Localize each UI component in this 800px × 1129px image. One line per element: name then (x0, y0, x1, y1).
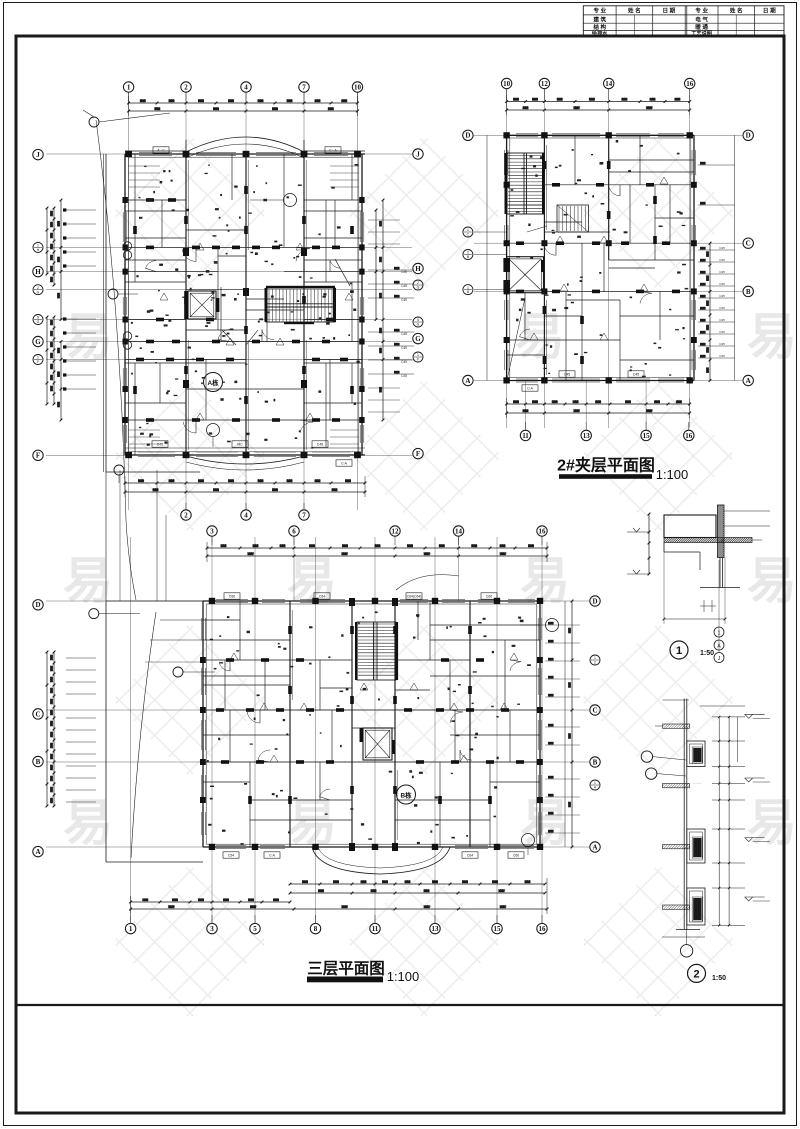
plan3 wall columns (200, 598, 543, 851)
plan3 right axis bubbles (590, 596, 600, 852)
svg-text:C: C (592, 706, 597, 714)
plan1 elevator side wall fills (184, 291, 219, 319)
svg-text:2#夹层平面图: 2#夹层平面图 (557, 456, 655, 475)
svg-text:C45: C45 (719, 318, 725, 322)
plan1 bottom dimension chains (124, 476, 367, 497)
svg-text:B: B (36, 758, 41, 766)
svg-text:4: 4 (244, 511, 248, 519)
plan1 A-unit label circle (204, 373, 223, 392)
svg-text:10: 10 (354, 83, 362, 91)
plan3 window openings (216, 593, 535, 858)
detail2 left level circles (641, 751, 686, 779)
svg-text:B: B (746, 288, 751, 296)
svg-text:D: D (35, 601, 40, 609)
svg-text:H: H (415, 265, 421, 273)
plan1 left dimension chain (46, 199, 96, 422)
svg-text:易: 易 (63, 309, 113, 365)
svg-text:C45: C45 (401, 270, 407, 274)
svg-text:1: 1 (594, 781, 596, 785)
svg-text:C - A: C - A (329, 149, 337, 153)
plan1 interior partitions (125, 154, 362, 455)
svg-text:C45: C45 (719, 354, 725, 358)
plan3 elevator side wall fills (360, 728, 396, 754)
plan2 interior partitions (507, 135, 694, 380)
plan2 left outside lines (474, 135, 506, 380)
plan3 site boundary curve (96, 120, 136, 600)
svg-text:16: 16 (685, 432, 693, 440)
detail1 left dimension line (627, 513, 650, 576)
plan2 axis grid lines (474, 89, 742, 428)
plan1 room leader circle upper (250, 194, 297, 207)
svg-text:1: 1 (467, 286, 469, 290)
svg-text:11: 11 (522, 432, 529, 440)
svg-text:C64: C64 (319, 595, 325, 599)
detail1 axis circles column (714, 560, 724, 663)
svg-text:1: 1 (467, 228, 469, 232)
svg-text:1: 1 (127, 83, 131, 91)
svg-text:易: 易 (747, 309, 797, 365)
plan1 top axis bubbles 1 2 4 7 10 (123, 82, 362, 103)
svg-text:1: 1 (417, 353, 419, 357)
detail2 bottom assembly (662, 930, 705, 958)
svg-text:三层平面图: 三层平面图 (307, 960, 385, 978)
svg-text:C45: C45 (401, 284, 407, 288)
svg-text:12: 12 (541, 80, 549, 88)
svg-text:5: 5 (253, 925, 257, 933)
svg-text:C54: C54 (228, 854, 234, 858)
plan3 interior partitions (203, 601, 540, 847)
svg-text:D: D (746, 132, 751, 140)
svg-text:H: H (35, 268, 41, 276)
plan3 elevator shaft (363, 728, 392, 760)
svg-text:13: 13 (432, 925, 440, 933)
plan2 wall columns (503, 132, 696, 383)
plan3 terrace top lines (145, 620, 203, 662)
plan1 window openings top wall (139, 152, 348, 155)
plan1 wall jamb bars (133, 186, 354, 422)
svg-text:A: A (465, 377, 470, 385)
svg-text:6: 6 (292, 527, 296, 535)
svg-text:5: 5 (37, 316, 39, 320)
svg-text:14: 14 (455, 527, 463, 535)
svg-text:C45: C45 (719, 270, 725, 274)
svg-text:C-A: C-A (269, 854, 276, 858)
svg-text:G: G (415, 335, 421, 343)
svg-text:易: 易 (63, 795, 113, 851)
plan3 unit separation walls (290, 601, 470, 847)
plan1 window label boxes top (153, 147, 341, 153)
plan3 interior annotation scatter (207, 611, 531, 844)
svg-text:1: 1 (129, 925, 133, 933)
plan2 right axis bubbles (743, 130, 753, 386)
watermark layer (63, 135, 797, 1020)
detail1 hatched wall (718, 505, 725, 558)
svg-text:2: 2 (37, 286, 39, 290)
svg-text:C45: C45 (317, 443, 323, 447)
svg-text:7: 7 (302, 511, 306, 519)
plan1 staircase (265, 286, 337, 324)
svg-text:B: B (593, 758, 598, 766)
svg-text:8: 8 (314, 925, 318, 933)
svg-text:易: 易 (747, 795, 797, 851)
svg-text:5: 5 (417, 318, 419, 322)
svg-text:1:50: 1:50 (712, 975, 726, 982)
svg-text:易: 易 (520, 795, 570, 851)
detail2 right dimension lines (712, 716, 745, 927)
plan1 top dimension chains (127, 96, 359, 116)
svg-text:16: 16 (539, 925, 547, 933)
plan3 door swing arcs (219, 660, 521, 800)
plan1-plan3 connector lines (106, 470, 166, 601)
svg-text:1: 1 (594, 656, 596, 660)
svg-text:C45: C45 (719, 294, 725, 298)
svg-text:A: A (592, 843, 597, 851)
plan3 bottom axis bubbles (125, 915, 547, 934)
svg-text:给排水: 给排水 (592, 29, 608, 37)
plan3 wall jamb bars (216, 626, 524, 804)
svg-text:1: 1 (37, 356, 39, 360)
plan1 wall columns (123, 151, 365, 458)
plan3 door symbols (230, 653, 518, 762)
svg-text:C45: C45 (401, 332, 407, 336)
detail1 beam rectangle (664, 515, 716, 538)
svg-text:C64: C64 (467, 854, 473, 858)
svg-text:11: 11 (372, 925, 379, 933)
svg-text:F: F (416, 450, 420, 458)
plan2 window openings (516, 134, 684, 391)
plan3 axis grid lines (46, 537, 589, 923)
detail2 main wall lines (684, 699, 687, 930)
plan3 bottom dimension chains (129, 878, 548, 914)
plan2 right outside dimension (698, 135, 735, 382)
svg-text:易: 易 (287, 795, 337, 851)
svg-text:G: G (417, 286, 420, 290)
plan2 top dimension chains (505, 95, 691, 115)
svg-text:C64(C64): C64(C64) (407, 595, 422, 599)
svg-text:F: F (37, 360, 39, 364)
svg-text:C-A: C-A (341, 462, 348, 466)
svg-text:C45: C45 (401, 298, 407, 302)
plan3 room leader circle lower (522, 834, 535, 856)
svg-text:C45: C45 (633, 373, 639, 377)
plan3 inner wall parallels (202, 605, 542, 845)
svg-text:J: J (416, 150, 420, 158)
plan2 door swing arcs (520, 185, 652, 340)
svg-text:4: 4 (244, 83, 248, 91)
svg-text:G: G (37, 320, 40, 324)
detail2 slab hatches (655, 724, 689, 909)
svg-text:日 期: 日 期 (763, 7, 776, 15)
detail1 leader lines to right (724, 511, 770, 526)
plan2 left axis bubbles (463, 130, 473, 386)
plan3 staircase (355, 575, 459, 680)
svg-text:16: 16 (686, 80, 694, 88)
svg-text:G: G (37, 290, 40, 294)
plan1 unit separation walls (186, 154, 306, 455)
svg-text:结 构: 结 构 (593, 23, 606, 31)
svg-text:D: D (592, 597, 597, 605)
svg-text:1:100: 1:100 (387, 969, 420, 984)
svg-text:J: J (36, 151, 40, 159)
svg-text:G: G (35, 338, 41, 346)
svg-text:10: 10 (503, 80, 511, 88)
plan1 door symbols (160, 243, 353, 420)
svg-text:C60: C60 (486, 595, 492, 599)
svg-text:暖 通: 暖 通 (695, 23, 708, 31)
plan3 top dimension chains (206, 542, 549, 562)
plan1 left axis bubbles (33, 149, 43, 460)
svg-text:1:50: 1:50 (700, 650, 714, 657)
plan1 interior annotation scatter (131, 164, 360, 449)
svg-text:建 筑: 建 筑 (592, 15, 606, 23)
detail2 name circle 1:50 (688, 964, 727, 982)
plan2 wall jamb bars (516, 161, 680, 364)
plan2 elevator shaft (507, 257, 544, 293)
plan1 elevator shaft (188, 291, 216, 319)
svg-text:15: 15 (643, 432, 651, 440)
svg-text:7: 7 (302, 83, 306, 91)
svg-text:F: F (417, 358, 419, 362)
plan3 outer walls (203, 601, 540, 847)
svg-text:C60: C60 (513, 854, 519, 858)
plan1 top-left leader circle (83, 110, 170, 127)
plan2 diagonal leader (507, 226, 547, 380)
svg-text:D: D (465, 132, 470, 140)
detail2 window boxes (687, 741, 705, 925)
svg-text:F: F (36, 452, 40, 460)
plan2 door symbols (530, 177, 668, 340)
plan3 inner leader circle left (89, 609, 215, 677)
detail2 top lines (663, 700, 746, 706)
svg-text:G: G (417, 323, 420, 327)
svg-text:2: 2 (184, 511, 188, 519)
svg-text:1: 1 (676, 645, 682, 657)
detail1 bottom dimension (663, 543, 727, 625)
svg-text:C45: C45 (401, 360, 407, 364)
plan1 door swing arcs (146, 247, 341, 433)
svg-text:2: 2 (467, 251, 469, 255)
svg-text:易: 易 (63, 553, 113, 609)
svg-text:C45: C45 (719, 330, 725, 334)
plan1 axis grid lines (46, 92, 412, 510)
svg-text:工艺说明: 工艺说明 (691, 29, 712, 37)
svg-text:日 期: 日 期 (663, 7, 676, 15)
svg-text:易: 易 (747, 553, 797, 609)
svg-text:C: C (746, 240, 751, 248)
plan3 B-unit label circle (397, 785, 416, 804)
svg-text:12: 12 (392, 527, 400, 535)
svg-text:C45: C45 (401, 346, 407, 350)
plan1 inner fraction circles (123, 242, 131, 349)
plan2 interior annotation scatter (510, 140, 688, 377)
svg-text:C45: C45 (719, 282, 725, 286)
plan1 bottom bay band (186, 456, 304, 470)
plan2 inner wall parallels (504, 139, 695, 378)
svg-text:1: 1 (37, 244, 39, 248)
plan1 side room shelf lines (129, 166, 359, 444)
plan2 top axis bubbles (501, 78, 695, 100)
plan1 corridor door leaves (222, 259, 350, 345)
svg-text:2: 2 (417, 281, 419, 285)
svg-text:14: 14 (605, 80, 613, 88)
svg-text:A - C: A - C (157, 149, 165, 153)
svg-text:1:100: 1:100 (656, 467, 689, 482)
plan1 inner wall parallels (123, 157, 364, 452)
plan1 terrace leader circle (108, 289, 138, 299)
plan3 room leader circle upper (520, 619, 559, 632)
plan2 title text (557, 456, 688, 483)
plan3 top axis bubbles (207, 526, 547, 545)
svg-text:C: C (35, 710, 40, 718)
svg-text:13: 13 (583, 432, 591, 440)
svg-text:C45: C45 (719, 306, 725, 310)
svg-text:专 业: 专 业 (695, 7, 708, 15)
plan3 left dimension chain (46, 651, 96, 808)
plan1 room leader circle lower (207, 424, 220, 448)
svg-text:C66: C66 (229, 595, 235, 599)
plan2 unit separation walls (544, 135, 608, 380)
svg-text:专 业: 专 业 (593, 7, 606, 15)
svg-text:电 气: 电 气 (695, 15, 708, 23)
svg-text:A: A (746, 377, 751, 385)
detail1 slab hatch strip (664, 538, 762, 543)
svg-text:B栋: B栋 (400, 791, 412, 800)
plan3 right outside lines (545, 600, 580, 849)
svg-text:C45: C45 (564, 373, 570, 377)
svg-text:3: 3 (210, 925, 214, 933)
plan1 window openings bottom wall (138, 441, 352, 466)
plan2 bottom dimension chains (505, 398, 691, 418)
svg-text:姓 名: 姓 名 (729, 7, 743, 15)
svg-text:C45: C45 (719, 246, 725, 250)
plan3 bottom bay window (312, 847, 450, 874)
plan3 left terrace outline (106, 601, 203, 862)
svg-text:A栋: A栋 (207, 378, 219, 387)
svg-text:姓 名: 姓 名 (627, 7, 641, 15)
plan2 outer walls (507, 135, 694, 380)
svg-text:C45: C45 (719, 342, 725, 346)
plan3 title text (307, 960, 419, 985)
svg-text:MC: MC (237, 443, 243, 447)
plan2 staircase lower flight (557, 205, 589, 232)
svg-text:C45: C45 (157, 443, 163, 447)
bottom divider line (16, 1004, 784, 1006)
detail1 name circle 1:50 (670, 641, 714, 659)
svg-text:C45: C45 (401, 374, 407, 378)
svg-text:2: 2 (693, 968, 699, 980)
svg-text:C45: C45 (719, 258, 725, 262)
svg-text:15: 15 (494, 925, 502, 933)
plan2 bottom axis bubbles (520, 422, 694, 441)
svg-text:2: 2 (184, 83, 188, 91)
svg-text:3: 3 (210, 527, 214, 535)
svg-text:C-A: C-A (527, 387, 534, 391)
plan2 staircase upper (505, 153, 546, 214)
plan1 outer walls (104, 137, 365, 472)
detail1 step lines (664, 543, 740, 588)
title block table (583, 6, 784, 37)
plan3 left axis bubbles (33, 600, 43, 857)
svg-text:A: A (35, 848, 40, 856)
svg-text:1: 1 (718, 631, 721, 637)
plan2 elevator side wall fills (503, 258, 544, 292)
plan1 right dimension chain (368, 199, 414, 422)
plan1 right side annotation texts (401, 270, 407, 378)
svg-text:易: 易 (515, 309, 565, 365)
detail2 right level marks (745, 714, 770, 901)
svg-text:16: 16 (539, 527, 547, 535)
plan1 right axis bubbles (413, 149, 423, 459)
plan1 bottom axis bubbles 2 4 7 (114, 465, 309, 520)
